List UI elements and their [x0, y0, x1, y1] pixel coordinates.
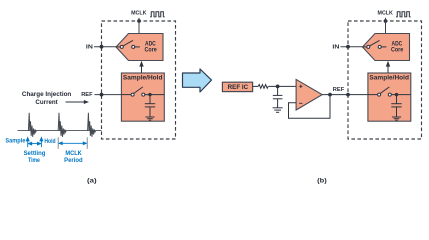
svg-text:MCLK: MCLK: [378, 11, 394, 17]
settling time double arrow: [29, 142, 41, 145]
svg-text:IN: IN: [86, 45, 93, 51]
svg-text:Core: Core: [391, 47, 404, 54]
chip boundary (b) dashed box: [348, 21, 422, 139]
wire op-amp output to REF node: [322, 94, 368, 96]
waveform baseline (charge injection current): [18, 130, 102, 132]
wire IN (a): [94, 46, 117, 48]
wire REF into chip (a): [95, 94, 122, 96]
svg-text:(a): (a): [87, 178, 97, 184]
node filter cap junction: [276, 85, 280, 89]
switch inside Sample/Hold (a): [122, 87, 165, 96]
ground inside Sample/Hold (b): [392, 117, 401, 120]
arrow charge injection direction: [66, 101, 86, 103]
switch inside ADC Core (b): [363, 40, 386, 48]
capacitor filter: [273, 86, 283, 107]
waveform burst 3: [88, 113, 96, 137]
svg-text:Sample: Sample: [5, 139, 26, 145]
wire Sample/Hold to ADC arrow (b): [387, 65, 389, 74]
svg-text:Current: Current: [35, 100, 57, 106]
MCLK clock waveform glyph (b): [396, 12, 411, 17]
wire feedback loop: [289, 95, 331, 119]
Sample/Hold block (b): [368, 73, 411, 121]
svg-text:REF IC: REF IC: [228, 85, 249, 91]
MCLK clock waveform glyph (a): [150, 12, 165, 17]
wire resistor to op-amp: [268, 85, 296, 87]
REF IC block: [222, 82, 252, 91]
node IN dot on boundary (b): [346, 45, 350, 49]
ground inside Sample/Hold (a): [145, 117, 154, 120]
resistor R (series): [258, 85, 268, 89]
svg-text:Charge Injection: Charge Injection: [22, 92, 72, 98]
ground filter cap: [273, 108, 283, 113]
wire Sample/Hold to ADC arrow (a): [141, 65, 143, 74]
capacitor hold (a): [145, 95, 155, 117]
svg-text:REF: REF: [333, 87, 345, 93]
svg-text:Sample/Hold: Sample/Hold: [369, 76, 409, 82]
ADC Core block (b) pentagon: [363, 34, 410, 61]
svg-text:Settling: Settling: [24, 151, 46, 157]
wire MCLK to ADC core (a): [138, 18, 140, 34]
node op-amp output dot: [328, 93, 332, 97]
node IN dot on boundary (a): [100, 45, 104, 49]
op-amp U1 buffer: [296, 79, 322, 110]
svg-text:Core: Core: [145, 47, 158, 54]
wire REF IC to resistor: [253, 85, 259, 87]
node hold cap junction (b): [395, 93, 398, 96]
node MCLK dot on boundary (a): [137, 19, 141, 23]
wire MCLK to ADC core (b): [385, 18, 387, 34]
switch inside Sample/Hold (b): [368, 87, 411, 96]
ADC Core block (a) pentagon: [116, 34, 163, 61]
chip boundary (a) dashed box: [102, 21, 176, 139]
op-amp + input marker: [299, 85, 302, 88]
svg-text:Hold: Hold: [44, 139, 55, 145]
waveform burst 1: [28, 113, 36, 137]
capacitor hold (b): [391, 95, 401, 117]
wire IN (b): [341, 46, 364, 48]
node hold cap junction (a): [148, 93, 151, 96]
op-amp - input marker: [299, 102, 302, 104]
svg-text:IN: IN: [332, 45, 339, 51]
MCLK period tick lines: [58, 137, 87, 149]
sample instant up-arrow tick: [26, 138, 29, 148]
svg-text:Sample/Hold: Sample/Hold: [123, 76, 163, 82]
svg-text:REF: REF: [81, 92, 93, 98]
svg-text:(b): (b): [317, 178, 327, 184]
node MCLK junction dot (b): [384, 19, 388, 23]
waveform burst 2: [58, 113, 66, 137]
big block arrow: [183, 69, 212, 92]
hold instant up-arrow tick: [40, 138, 43, 148]
switch inside ADC Core (a): [117, 40, 140, 48]
MCLK period double arrow: [59, 142, 86, 145]
node REF dot on boundary (a): [100, 93, 104, 97]
Sample/Hold block (a): [121, 73, 164, 121]
svg-text:Time: Time: [28, 158, 40, 164]
svg-text:Period: Period: [64, 158, 83, 164]
svg-text:MCLK: MCLK: [131, 11, 147, 17]
svg-text:MCLK: MCLK: [65, 151, 82, 157]
node REF dot on boundary (b): [346, 93, 350, 97]
